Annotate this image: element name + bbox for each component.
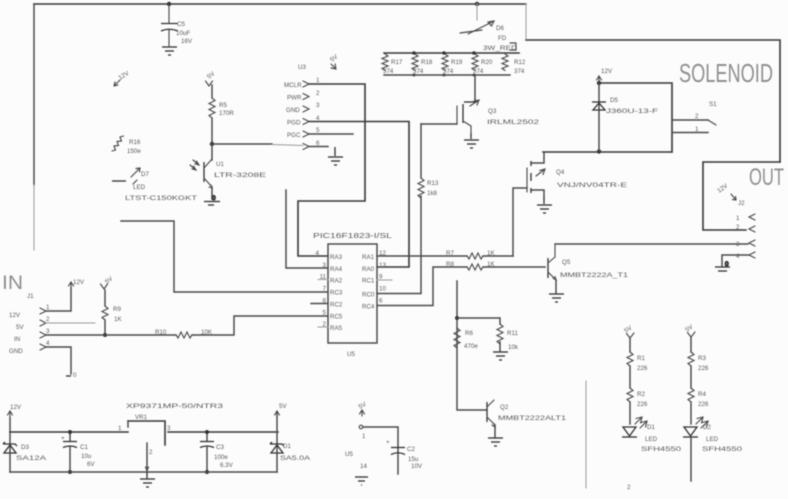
solenoid drive: power flag 12V — [597, 68, 613, 83]
svg-text:374: 374 — [443, 68, 454, 75]
svg-text:R6: R6 — [465, 330, 473, 337]
regulator VR1 XP9371MP-50/NTR3 — [118, 403, 224, 471]
svg-text:R12: R12 — [514, 59, 526, 66]
svg-text:RA4: RA4 — [330, 266, 343, 273]
svg-text:+: + — [386, 439, 390, 446]
svg-text:IN: IN — [2, 273, 23, 294]
svg-text:D7: D7 — [141, 171, 149, 178]
svg-text:R18: R18 — [421, 59, 433, 66]
resistor R10 10K — [155, 329, 213, 338]
svg-text:150e: 150e — [127, 148, 141, 155]
wire J2 pin4 to ground — [722, 255, 749, 266]
wire solenoid loop — [599, 83, 672, 152]
svg-text:U5: U5 — [345, 451, 353, 458]
svg-text:RC1: RC1 — [362, 278, 375, 285]
LED D2 SFH4550 — [684, 427, 697, 436]
resistor R9 1K — [102, 290, 122, 335]
capacitor C1 10u 6V — [61, 432, 95, 472]
wire faint vertical LED return — [585, 381, 587, 488]
ground below U1 — [204, 195, 220, 205]
svg-text:1: 1 — [362, 433, 366, 440]
svg-text:Q2: Q2 — [500, 404, 509, 411]
wire LED net to PIC RC3 — [121, 221, 328, 292]
svg-text:GND: GND — [9, 348, 23, 355]
power flag 12V at J2 — [716, 182, 736, 200]
pin 2 — [303, 94, 309, 100]
svg-text:SFH4550: SFH4550 — [702, 446, 743, 453]
svg-text:1K: 1K — [487, 250, 495, 257]
resistor R8 1K row from RC4 — [377, 261, 545, 306]
wire J1 pin3 IN line — [46, 334, 176, 336]
capacitor C2 15u 10V — [386, 439, 423, 470]
svg-text:12V: 12V — [9, 312, 21, 319]
svg-text:U5: U5 — [347, 351, 355, 358]
svg-text:3: 3 — [46, 328, 50, 335]
svg-text:D1: D1 — [283, 443, 291, 450]
svg-text:IN: IN — [14, 336, 20, 343]
ground below Q2 — [488, 438, 503, 446]
power flag 12V at J1 — [69, 279, 85, 288]
svg-text:RC2: RC2 — [330, 302, 343, 309]
svg-text:VNJ/NV04TR-E: VNJ/NV04TR-E — [557, 182, 627, 189]
resistor R19 374 — [442, 54, 463, 75]
svg-text:D2: D2 — [703, 424, 711, 431]
pin 1 — [303, 81, 309, 87]
svg-text:7: 7 — [323, 286, 327, 293]
svg-text:U3: U3 — [298, 64, 306, 71]
svg-text:2: 2 — [736, 224, 740, 231]
pin 3 — [303, 106, 309, 112]
ground below Q4 — [537, 198, 552, 213]
svg-text:12V: 12V — [10, 404, 22, 411]
diode D3 SA12A — [3, 442, 47, 462]
svg-text:226: 226 — [637, 365, 648, 372]
ground below header — [328, 147, 343, 165]
wire PGC stub — [309, 133, 353, 135]
svg-text:RA0: RA0 — [362, 266, 375, 273]
svg-text:4: 4 — [46, 340, 50, 347]
svg-text:R8: R8 — [446, 261, 454, 268]
transistor Q5 MMBT2222A_T1 — [548, 245, 629, 293]
svg-text:C2: C2 — [407, 446, 415, 453]
svg-text:Q3: Q3 — [488, 108, 497, 115]
power flag 5V at R9 — [101, 275, 115, 289]
svg-text:1K: 1K — [487, 261, 495, 268]
svg-text:RC5: RC5 — [330, 314, 343, 321]
svg-text:MCLR: MCLR — [284, 82, 302, 89]
svg-text:R16: R16 — [129, 139, 141, 146]
svg-text:R13: R13 — [427, 180, 439, 187]
resistor R17 374 — [382, 54, 403, 75]
svg-text:LED: LED — [133, 184, 146, 191]
svg-text:C3: C3 — [216, 444, 224, 451]
svg-text:FD: FD — [498, 35, 507, 42]
svg-text:RC4: RC4 — [362, 304, 375, 311]
svg-text:16V: 16V — [181, 38, 193, 45]
transistor Q4 VNJ/NV04TR-E — [513, 152, 627, 256]
diode D1 SA5.0A — [270, 412, 311, 472]
svg-text:RA5: RA5 — [330, 325, 343, 332]
svg-text:470e: 470e — [464, 343, 478, 350]
svg-text:15u: 15u — [408, 456, 419, 463]
pin stub RC2 — [311, 303, 328, 305]
LED chain 2 — [683, 323, 743, 481]
connector J1 — [9, 293, 50, 355]
svg-text:12V: 12V — [73, 279, 85, 286]
svg-text:R4: R4 — [698, 391, 706, 398]
svg-text:3: 3 — [316, 102, 320, 109]
svg-text:226: 226 — [698, 401, 709, 408]
power flag 5V chain2 — [684, 323, 695, 337]
svg-text:PGD: PGD — [287, 120, 301, 127]
svg-text:1k8: 1k8 — [427, 190, 438, 197]
svg-text:3: 3 — [167, 425, 171, 432]
transistor U1 LTR-3208E phototransistor — [190, 144, 266, 199]
svg-text:R3: R3 — [698, 355, 706, 362]
svg-text:10V: 10V — [411, 463, 423, 470]
svg-text:RA2: RA2 — [330, 278, 343, 285]
transistor Q3 IRLML2502 — [457, 75, 540, 133]
svg-text:374: 374 — [413, 68, 424, 75]
svg-text:SA12A: SA12A — [16, 455, 47, 462]
wire R10 to PIC RC5 — [192, 316, 328, 335]
power flag 5V above R5 — [206, 70, 217, 86]
svg-text:OUT: OUT — [749, 164, 784, 191]
node junction D6 on top rail — [475, 2, 479, 6]
svg-text:S1: S1 — [709, 101, 717, 108]
wire D6 to right edge — [525, 4, 527, 40]
svg-text:SA5.0A: SA5.0A — [280, 455, 311, 462]
svg-text:LTR-3208E: LTR-3208E — [214, 172, 266, 179]
ground rail bottom — [10, 471, 277, 473]
svg-text:D1: D1 — [647, 424, 655, 431]
svg-text:R19: R19 — [451, 59, 463, 66]
svg-text:2: 2 — [695, 113, 699, 120]
wire 12V top rail — [34, 3, 526, 5]
svg-text:10u: 10u — [81, 453, 92, 460]
wire J1 pin1 to 12V — [46, 288, 71, 311]
wire PGD pin4 to PIC RA0 — [309, 122, 409, 268]
resistor R3 226 — [688, 352, 694, 366]
svg-text:Q5: Q5 — [562, 259, 571, 266]
ground below U5 pin14 — [355, 477, 368, 485]
svg-text:MMBT2222A_T1: MMBT2222A_T1 — [560, 272, 629, 279]
resistor R6 470e — [454, 328, 478, 350]
svg-text:MMBT2222ALT1: MMBT2222ALT1 — [498, 415, 567, 422]
wire J1 pin4 to gnd — [46, 347, 71, 374]
switch S1 — [672, 101, 717, 133]
svg-text:0: 0 — [73, 372, 77, 379]
svg-text:+: + — [61, 435, 65, 442]
svg-text:XP9371MP-50/NTR3: XP9371MP-50/NTR3 — [126, 403, 224, 410]
svg-text:R2: R2 — [637, 391, 645, 398]
svg-text:IRLML2502: IRLML2502 — [487, 119, 540, 126]
svg-text:R9: R9 — [113, 306, 121, 313]
svg-text:R11: R11 — [507, 330, 518, 337]
svg-text:3: 3 — [736, 241, 740, 248]
wire RC1 to R6/R11 — [457, 281, 486, 410]
ground below C5 — [162, 47, 177, 55]
svg-text:GND: GND — [286, 107, 300, 114]
resistor R4 226 — [688, 388, 694, 402]
resistor R7 1K row — [377, 250, 513, 259]
transistor Q2 MMBT2222ALT1 — [487, 400, 567, 437]
wire to PIC RA4 — [286, 190, 328, 268]
wire 12V rail — [9, 418, 11, 472]
svg-text:12V: 12V — [601, 68, 613, 75]
svg-text:9: 9 — [379, 274, 383, 281]
svg-text:R20: R20 — [481, 59, 493, 66]
svg-text:PWR: PWR — [287, 95, 302, 102]
resistor R11 10k — [457, 318, 519, 351]
svg-text:LED: LED — [645, 436, 658, 443]
LED chain 1 — [622, 324, 682, 491]
pin stub RC1 — [377, 279, 392, 281]
svg-text:D3: D3 — [21, 444, 29, 451]
svg-text:1: 1 — [695, 126, 699, 133]
svg-text:R5: R5 — [219, 102, 227, 109]
capacitor C3 100e 6.3V — [200, 432, 234, 472]
power flag 12V — [8, 404, 22, 418]
svg-text:2: 2 — [149, 449, 153, 456]
wire Q3 gate — [421, 123, 457, 125]
ground below Q3 — [464, 133, 479, 148]
resistor R20 374 — [472, 54, 493, 75]
svg-text:2: 2 — [316, 90, 320, 97]
U5 power pins — [345, 400, 398, 474]
svg-text:C1: C1 — [80, 444, 88, 451]
svg-text:10k: 10k — [508, 344, 519, 351]
resistor R13 1k8 with wire from Q3 gate to PIC RC0 — [377, 124, 439, 294]
resistor R16 150e — [112, 136, 141, 155]
ground below R11 — [493, 352, 508, 360]
svg-text:PGC: PGC — [287, 132, 301, 139]
connector J2 — [736, 200, 755, 260]
svg-text:0: 0 — [725, 261, 729, 268]
svg-text:PIC16F1823-I/SL: PIC16F1823-I/SL — [313, 233, 392, 240]
power flag 5V chain1 — [623, 324, 634, 338]
svg-text:LED: LED — [706, 436, 719, 443]
svg-text:5V: 5V — [279, 403, 287, 410]
svg-text:226: 226 — [698, 365, 709, 372]
svg-text:5V: 5V — [16, 324, 24, 331]
svg-text:2: 2 — [627, 484, 631, 491]
svg-text:10: 10 — [379, 286, 386, 293]
wire 5V to R5 — [211, 85, 213, 98]
LED D1 SFH4550 — [623, 427, 636, 436]
svg-text:R1: R1 — [637, 355, 645, 362]
svg-text:1: 1 — [118, 425, 122, 432]
svg-text:R17: R17 — [391, 59, 403, 66]
svg-text:RC0: RC0 — [362, 292, 375, 299]
diode D5 — [592, 83, 658, 151]
svg-text:3W_RED: 3W_RED — [483, 45, 518, 52]
pin stub RA2 — [318, 279, 328, 281]
svg-text:J360U-13-F: J360U-13-F — [606, 108, 658, 115]
svg-text:226: 226 — [637, 401, 648, 408]
svg-text:VR1: VR1 — [135, 414, 148, 421]
power flag 12V (floating, upper left) — [117, 69, 131, 81]
resistor bank rails — [384, 52, 519, 54]
wire collector node to header pin6 — [212, 143, 272, 145]
resistor R12 374 — [502, 54, 526, 75]
svg-text:4: 4 — [736, 253, 740, 260]
svg-text:J2: J2 — [738, 200, 745, 207]
svg-text:SFH4550: SFH4550 — [641, 446, 682, 453]
svg-text:2: 2 — [46, 316, 50, 323]
svg-text:374: 374 — [514, 68, 525, 75]
svg-text:1: 1 — [46, 304, 50, 311]
node junction C5 on top rail — [167, 2, 171, 6]
wire MCLR pin1 to PIC RA3 — [298, 84, 365, 256]
wire left 12V drop — [33, 4, 35, 185]
svg-text:100e: 100e — [214, 454, 228, 461]
svg-text:1K: 1K — [114, 316, 122, 323]
wire J1 pin2 stub — [46, 322, 95, 324]
svg-text:Q4: Q4 — [556, 169, 565, 176]
svg-text:1: 1 — [736, 215, 740, 222]
ground below Q5 — [549, 294, 564, 302]
pin 5 — [303, 131, 309, 137]
svg-text:SOLENOID: SOLENOID — [679, 58, 773, 88]
svg-text:R7: R7 — [446, 250, 454, 257]
pin 6 — [303, 144, 309, 150]
pin 4 — [303, 119, 309, 125]
wire Q5 collector to J2 pin3 — [555, 243, 748, 245]
ground at J2 — [715, 261, 730, 271]
resistor R18 374 — [412, 54, 433, 75]
wire R5 to collector node — [211, 118, 213, 144]
svg-text:3: 3 — [323, 262, 327, 269]
diode D6 FD — [460, 4, 507, 42]
svg-text:5: 5 — [316, 127, 320, 134]
svg-text:0: 0 — [212, 195, 216, 202]
node D5 bottom — [597, 149, 601, 153]
svg-text:6: 6 — [379, 298, 383, 305]
svg-text:D6: D6 — [496, 25, 504, 32]
ground 0 at J1 pin4 — [66, 372, 77, 379]
svg-text:U1: U1 — [216, 161, 224, 168]
svg-text:C5: C5 — [177, 21, 185, 28]
OUT connector box — [703, 162, 780, 230]
capacitor C5 — [161, 4, 193, 46]
svg-text:R10: R10 — [155, 329, 167, 336]
svg-text:6.3V: 6.3V — [220, 462, 234, 469]
ground symbol under rail — [140, 472, 155, 487]
svg-text:RA3: RA3 — [330, 254, 343, 261]
svg-text:6V: 6V — [87, 461, 95, 468]
LED D7 LTST-C150KGKT — [112, 168, 197, 202]
svg-text:10uF: 10uF — [176, 30, 190, 37]
svg-text:374: 374 — [473, 68, 484, 75]
resistor R1 226 — [627, 352, 633, 366]
svg-text:RC3: RC3 — [330, 290, 343, 297]
resistor R2 226 — [627, 388, 633, 402]
power flag 5V right — [275, 403, 288, 418]
svg-text:LTST-C150KGKT: LTST-C150KGKT — [125, 195, 197, 202]
svg-text:374: 374 — [383, 68, 394, 75]
svg-text:4: 4 — [316, 250, 320, 257]
node D5 top — [597, 81, 601, 85]
svg-text:1: 1 — [316, 77, 320, 84]
resistor R5 170R — [209, 98, 234, 118]
power flag 5V near U3 — [329, 53, 340, 69]
header U3 ICSP — [284, 64, 328, 150]
svg-text:170R: 170R — [219, 110, 234, 117]
svg-text:RA1: RA1 — [362, 254, 375, 261]
svg-text:13: 13 — [379, 262, 386, 269]
svg-text:J1: J1 — [27, 293, 34, 300]
PIC16F1823 IC U5 — [313, 233, 392, 358]
node collector junction — [210, 142, 214, 146]
svg-text:14: 14 — [360, 463, 367, 470]
pin stub RA5 — [318, 326, 328, 328]
svg-text:D5: D5 — [610, 97, 618, 104]
